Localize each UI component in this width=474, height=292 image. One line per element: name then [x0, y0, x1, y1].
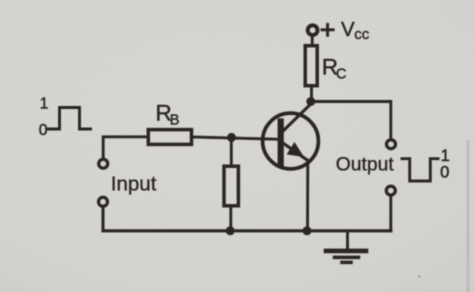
- input terminal upper: [99, 159, 108, 168]
- node base junction: [227, 133, 236, 142]
- wire input terminal to RB: [103, 137, 146, 158]
- input waveform pulse: [49, 108, 91, 130]
- resistor R1 base pull-down with stubs: [224, 137, 238, 230]
- ground symbol: [326, 231, 366, 262]
- svg-text:cc: cc: [354, 26, 370, 43]
- paper speck: [418, 275, 421, 278]
- input terminal lower: [99, 197, 108, 206]
- ground rail wire: [103, 206, 391, 231]
- wire collector node to output terminal: [313, 102, 391, 140]
- wire Vcc to RC: [311, 36, 314, 45]
- svg-text:B: B: [170, 112, 180, 128]
- svg-text:C: C: [336, 67, 346, 83]
- output waveform inverted pulse: [402, 159, 438, 181]
- output terminal upper: [387, 140, 396, 149]
- Vcc terminal: [308, 25, 318, 35]
- node pull-down to rail junction: [226, 226, 235, 235]
- svg-text:V: V: [341, 18, 355, 41]
- wire emitter to ground rail: [306, 161, 309, 231]
- svg-text:Input: Input: [111, 173, 157, 196]
- svg-text:0: 0: [39, 122, 48, 139]
- resistor RC: [305, 46, 317, 86]
- label RB: [156, 100, 180, 128]
- output terminal lower: [386, 186, 395, 195]
- label +Vcc plus sign: [322, 24, 333, 35]
- label RC: [322, 54, 347, 82]
- wire RB to base: [192, 137, 279, 139]
- node emitter junction: [303, 226, 312, 235]
- svg-text:1: 1: [40, 96, 49, 113]
- resistor RB: [148, 130, 191, 145]
- page edge shadow: [467, 140, 470, 292]
- svg-text:0: 0: [440, 163, 449, 182]
- node collector junction: [306, 97, 315, 106]
- label Vcc: [341, 18, 370, 43]
- wire RC to collector node: [310, 86, 313, 103]
- transistor Q1: [263, 104, 319, 169]
- svg-text:Output: Output: [336, 154, 395, 175]
- wire output terminal to ground rail: [389, 195, 392, 231]
